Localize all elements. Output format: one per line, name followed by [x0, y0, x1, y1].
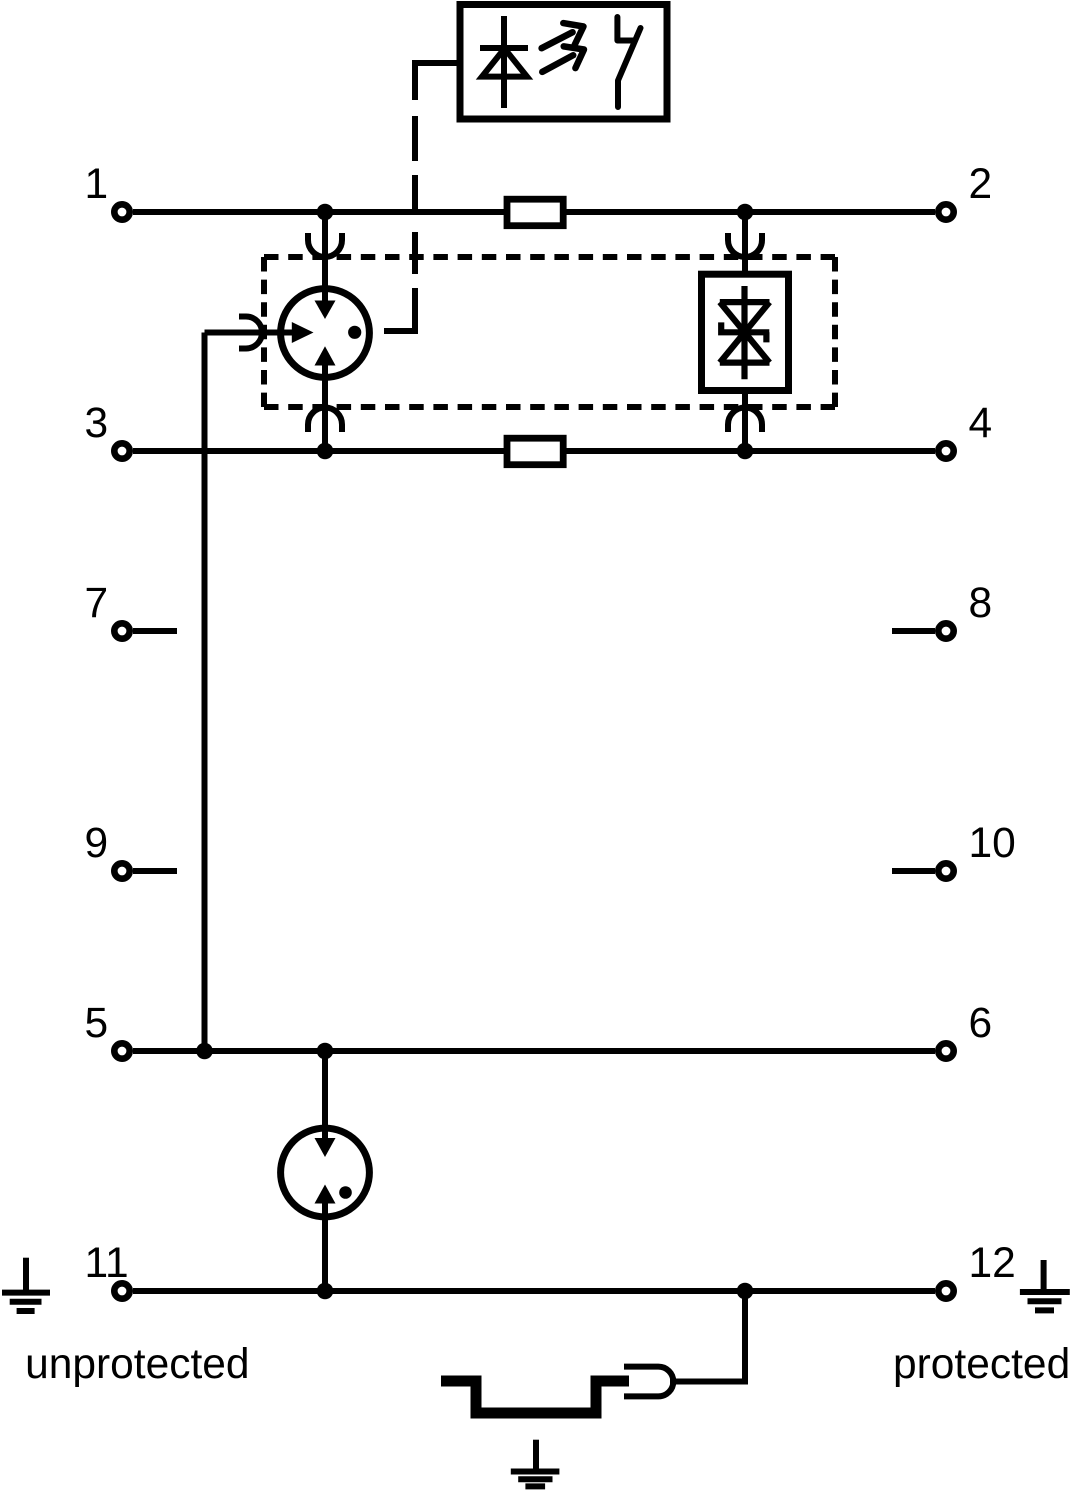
svg-text:1: 1 — [85, 161, 109, 208]
ground symbol right — [1020, 1260, 1070, 1310]
svg-text:12: 12 — [969, 1240, 1016, 1287]
DIN rail mounting foot — [441, 1381, 629, 1413]
node junction 3b — [737, 443, 754, 460]
svg-text:protected: protected — [893, 1341, 1070, 1388]
thermal disconnector arc left — [239, 317, 262, 349]
thermal disconnector arc top-right — [728, 233, 762, 257]
indicator tap wire — [415, 63, 460, 100]
svg-text:2: 2 — [969, 161, 993, 208]
svg-text:7: 7 — [85, 580, 109, 627]
F3 top electrode wire — [322, 1051, 328, 1139]
node junction 5b — [317, 1043, 334, 1060]
wire line 11-12 — [133, 1288, 935, 1294]
terminal 9 — [114, 863, 129, 878]
wire stub 7 — [133, 628, 177, 634]
terminal 1 — [114, 204, 129, 219]
node junction 5a — [196, 1043, 213, 1060]
terminal 6 — [938, 1043, 953, 1058]
svg-text:8: 8 — [969, 580, 993, 627]
suppressor diode branch wire bottom — [742, 394, 748, 451]
terminal 3 — [114, 443, 129, 458]
ground symbol left — [2, 1258, 50, 1311]
mounting clip — [624, 1367, 673, 1397]
wire line 3-4 — [133, 448, 935, 454]
F1 top arrow — [315, 301, 336, 320]
wire from line 11-12 to mounting clip — [670, 1291, 745, 1382]
terminal 12 — [938, 1283, 953, 1298]
resistor R1 — [507, 199, 563, 226]
wire stub 10 — [892, 868, 935, 874]
F1 dot electrode — [348, 326, 361, 339]
LED light arrow 1 — [542, 23, 584, 48]
F1 left arrow — [292, 322, 314, 343]
svg-text:5: 5 — [85, 1000, 109, 1047]
suppressor diode symbol — [720, 286, 770, 379]
node junction 1b — [737, 204, 754, 221]
svg-text:6: 6 — [969, 1000, 993, 1047]
thermal disconnector arc top-left — [308, 233, 342, 257]
LED D1 — [480, 16, 528, 108]
gas discharge tube F1 circle — [281, 289, 370, 378]
node junction 11a — [317, 1283, 334, 1300]
wire line 1-2 — [133, 209, 935, 215]
dashed enclosure box — [264, 257, 835, 407]
F1 bottom electrode wire — [322, 365, 328, 451]
thermal disconnector arc bottom-left — [308, 408, 342, 433]
remote contact switch S1 — [617, 17, 640, 107]
terminal 7 — [114, 623, 129, 638]
terminal 4 — [938, 443, 953, 458]
node junction 1a — [317, 204, 334, 221]
node junction 3a — [317, 443, 334, 460]
svg-text:3: 3 — [85, 400, 109, 447]
wire stub 9 — [133, 868, 177, 874]
terminal 2 — [938, 204, 953, 219]
suppressor diode branch wire top — [742, 212, 748, 271]
F1 bottom arrow — [315, 346, 336, 365]
indicator box U1 — [460, 5, 667, 120]
F3 top arrow — [315, 1138, 336, 1157]
wire line 5-6 — [133, 1048, 935, 1054]
thermal disconnector arc bottom-right — [728, 408, 762, 433]
resistor R2 — [507, 438, 563, 465]
node junction 11b — [737, 1283, 754, 1300]
F3 dot electrode — [339, 1186, 352, 1199]
terminal 10 — [938, 863, 953, 878]
F1 left electrode wire — [205, 330, 293, 336]
suppressor diode box F2 — [702, 274, 789, 390]
svg-text:10: 10 — [969, 820, 1016, 867]
svg-text:4: 4 — [969, 400, 993, 447]
ground symbol bottom — [511, 1440, 560, 1487]
gas discharge tube F3 circle — [281, 1128, 370, 1217]
dashed monitoring line — [412, 116, 418, 274]
F3 bottom electrode wire — [322, 1203, 328, 1291]
svg-text:11: 11 — [85, 1240, 129, 1287]
svg-text:unprotected: unprotected — [25, 1341, 249, 1388]
F1 top electrode wire — [322, 212, 328, 301]
terminal 11 — [114, 1283, 129, 1298]
F3 bottom arrow — [315, 1185, 336, 1204]
svg-text:9: 9 — [85, 820, 109, 867]
long vertical wire from F1 left electrode to line 5 — [202, 333, 208, 1052]
terminal 8 — [938, 623, 953, 638]
LED light arrow 2 — [542, 46, 584, 72]
terminal 5 — [114, 1043, 129, 1058]
wire stub 8 — [892, 628, 935, 634]
